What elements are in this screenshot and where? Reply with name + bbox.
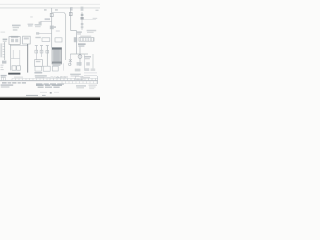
label: pin text specks column lower b [1,67,4,68]
wire: left vertical bus 1 [10,44,12,70]
connector P1: stub on top bus [70,7,73,11]
node: leader circle 3 [64,76,66,78]
gate U4 box [52,66,58,71]
node: leader circle 1 [57,76,59,78]
label: pin text specks column lower c [1,69,4,70]
wire: corner to x76.4 [71,31,77,54]
label: text above diode box [35,37,40,38]
wire: main bottom rule [0,80,98,82]
label: text at corner [77,31,82,33]
node: leader circle 2 [60,76,62,78]
terminal strip TB1 [79,38,94,42]
label: title right text [76,85,86,86]
label: title centered line2 seg3 [53,87,59,88]
label: faint speck right of C201 [56,30,60,31]
wire: end tick of branch [64,13,66,14]
label: title centered line1 seg3 [52,84,62,86]
label: bottom caption gray marks b [42,95,46,96]
wire: bottom dark table-edge band row2 [0,97,100,98]
label: text above right cells [60,76,68,77]
transformer T1 body [23,36,31,44]
wire: second vertical net [65,14,67,61]
label: Q1 text [84,56,91,58]
label: bold section title bar [8,73,20,75]
diode CR1 box [42,38,50,42]
wire: vertical from J3 down [41,50,43,57]
label: component values block right [78,43,86,45]
transformer T1 winding marks [24,37,29,39]
wire: right vertical x93 [92,54,94,70]
label: faint text above left cells [14,77,23,78]
gate U2 box [35,60,43,67]
connector J3 inline body [40,50,43,53]
label: table text row left seg3 [12,82,16,84]
label: right corner marks row3 [89,88,94,89]
capacitor C201 on vertical net [50,26,54,30]
label: table text row mid seg4 [57,83,64,85]
wire: right short rule b [84,74,97,76]
relay K1 coil mark [11,36,19,38]
label: table text row left seg4 [18,82,21,84]
label: relay K1 designator [3,39,8,41]
resistor chain R210 on far-right vertical [81,12,83,30]
label: table text row mid seg3 [50,83,56,85]
wire: top header rule 1 [0,3,100,5]
wire: vertical into circle [79,47,81,66]
wire: main vertical net from top bus [51,8,53,48]
IC U1 bottom pin row [52,62,62,64]
label: text above terminal strip [80,36,91,37]
label: under U1 [52,65,60,66]
wire: left branch at y21.3 [40,20,51,22]
label: right corner marks [89,85,97,86]
wire: faint branch right [84,19,97,21]
node C: right end speck [96,10,99,11]
wire: stub leaving block bottom [62,63,64,70]
lamp DS1 on right vertical [69,12,72,15]
wire: bus under relay row [10,44,28,46]
connector J1 edge strip [4,42,6,60]
switch S1 box a [12,66,16,70]
wire: right short rule a [84,72,97,74]
ground: at left end of branch [39,22,42,25]
connector J2 inline body [35,50,38,53]
wire: strong vertical bus right of left cluster [27,44,29,73]
wire: right vertical from top bus [70,8,72,31]
label: small text under it [1,75,7,76]
wire: left vertical bus 2 [12,50,14,59]
connector: cell ticks above rule [50,78,96,80]
wire: top header rule 2 (main top bus) [0,7,100,9]
label: text under mid column [34,72,42,74]
label: table text row left seg1 [2,82,7,84]
label: right corner marks row2 [89,86,96,87]
ground: right bottom glyph a [75,69,81,72]
label R201 [45,18,50,20]
wire: right horizontal bus y54 [70,53,88,55]
label: mid annotation text [35,24,42,26]
label: tiny text near right edge [93,18,98,19]
label: J1 pin names [0,43,2,57]
label: right notes text [70,74,81,75]
wire: cells top line left part [12,77,50,79]
label: faint speck left-mid [30,16,33,17]
relay K1 contact a [11,39,14,42]
label: title block left line2 [1,86,10,87]
label: title centered line2 seg2 [45,87,52,88]
relay K2 box [55,38,62,42]
label: left annotation text line 2 [13,27,19,28]
capacitor C210 blob [81,23,84,25]
switch S1 box b [17,66,21,70]
gate U3 box [43,66,50,71]
wire: bottom dark table-edge band row1 [0,96,100,97]
label: table text row left seg2 [8,82,12,84]
label: caution note row2 [87,32,94,33]
label: right notes row2 [71,75,80,76]
label: relay K1 value [3,41,7,42]
label: left annotation text line 3 [13,29,18,31]
label: table text row mid seg2 [44,83,49,85]
label: bottom caption gray marks a [26,95,38,96]
node: small circle below crossing [69,63,72,66]
connector J3 stub [40,46,43,50]
label: small text under it row2 [1,77,6,78]
label: faint dash bottom-left of text [1,31,6,34]
ground: right bottom glyph b [84,68,89,71]
label: Q1 text row2 [84,58,89,59]
connector P2: stub on top bus [81,7,84,11]
relay K1 body [9,37,20,45]
node D: blob on branch [36,32,39,34]
label: vertical text left of terminal strip [74,37,77,42]
wire: vertical from J2 down [35,50,37,60]
label: title centered line1 seg2 [45,84,51,86]
connector: stamp box over cells [76,76,84,79]
label: title centered line2 seg1 [38,87,44,88]
label: faint caption specks mid [40,92,47,93]
node B: tap under top bus [55,9,58,11]
terminal strip TB1 ticks [81,38,94,42]
label: table text row mid seg1 [36,83,42,85]
wire: vertical x70.3 below bus [69,54,71,65]
connector: below-rule cell ticks right [62,81,97,83]
label: mid notes row2 [35,75,47,76]
wire: branch to the right at y12.6 [52,12,65,14]
node A: tap under top bus [44,9,47,11]
node: gray dot near page bottom [50,92,52,93]
connector J4 inline body [46,50,49,53]
wire: left vertical bus 3 [19,50,21,66]
label: mid annotation text row2 [35,26,41,27]
IC U1 connector bank body [52,48,62,64]
wire: left branch at y33.3 [38,32,52,34]
ground: right bottom glyph c [91,68,96,71]
wire: horizontal jog [11,58,20,60]
wire: right mid vertical x84.6 [84,54,86,70]
label inside U2 [36,61,41,62]
connector: cell ticks above rule left group [12,78,47,80]
wire: left tick group above rule [2,77,6,81]
node X: crossing mark [69,59,72,62]
label: J1 designator blob [2,61,6,64]
label: left annotation text line 1 [12,25,21,27]
label: speck above cells a [51,76,53,77]
label: note text second row [28,25,33,26]
label: speck above cells b [54,76,56,77]
label: marks near C5 [86,62,90,65]
gate U5 box [35,66,41,71]
label: mid notes row3 [35,77,44,78]
label: mid notes text [35,72,42,73]
label C201 value [53,26,56,28]
wire: vertical from J4 down [46,46,48,66]
label: text above far right cells [80,77,90,78]
wire: below-rule cells bottom line [62,83,98,85]
transistor Q1 circle [78,55,82,59]
connector J2 stub [35,46,38,50]
label: title right text row2 [76,87,84,88]
wire: cells top line [50,77,98,79]
connector J1 pin ticks [3,44,5,57]
wire: bottom dark table-edge band row4 [0,99,100,100]
wire: note leader line [44,76,67,78]
IC U1 top header row [52,48,62,50]
relay K1 contact b [15,39,18,42]
label: caution note right side [87,30,97,32]
connector J4 stub [46,46,49,50]
IC U1 internal pin lines [53,50,61,62]
label: faint caption specks mid b [54,92,59,93]
label: pin text specks column lower [1,65,4,66]
wire: right vertical frame line [97,76,99,84]
label: title block left line1 [1,84,14,85]
label: title centered line1 seg1 [36,84,44,86]
fuse F1 on vertical net [50,13,53,16]
resistor R211 blob [81,14,84,16]
label: component values block right row2 [78,45,84,46]
label: text at corner row2 [77,33,81,34]
label: note text right of it [28,24,34,25]
capacitor C211 blob [81,26,84,28]
label: table text row left seg5 [22,82,26,84]
resistor R212 blob (darker) [81,17,84,20]
wire: bottom dark table-edge band row3 [0,98,100,99]
capacitor C5 hatched box [77,62,82,66]
